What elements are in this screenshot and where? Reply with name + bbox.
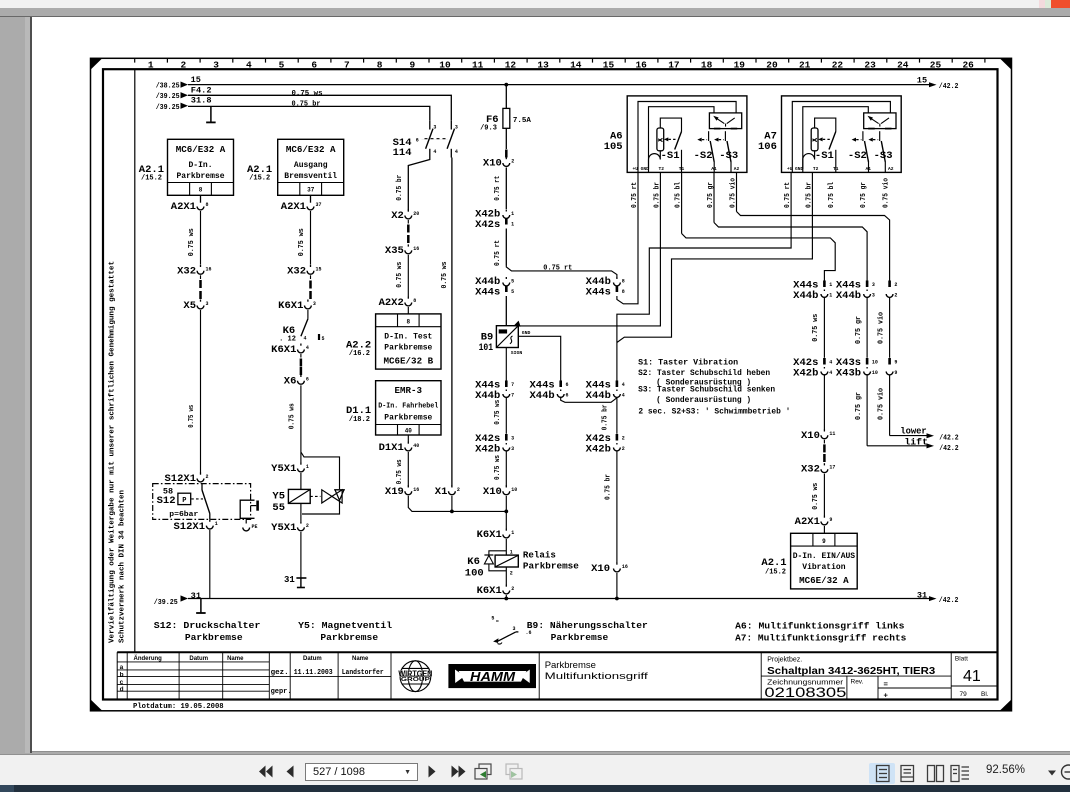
svg-text:X19: X19	[385, 486, 404, 498]
svg-text:Datum: Datum	[303, 656, 322, 662]
svg-text:17: 17	[829, 465, 835, 471]
svg-text:p=6bar: p=6bar	[169, 511, 198, 519]
svg-text:MC6/E32 A: MC6/E32 A	[176, 144, 226, 155]
svg-text:/38.25: /38.25	[156, 83, 180, 91]
svg-text:/16.2: /16.2	[349, 350, 370, 358]
svg-text:SIGN: SIGN	[511, 350, 523, 356]
svg-text:8: 8	[199, 187, 203, 194]
svg-text:A2X1: A2X1	[171, 201, 196, 213]
svg-text:9: 9	[409, 60, 415, 71]
svg-text:25: 25	[930, 60, 942, 71]
svg-text:K6X1: K6X1	[278, 300, 303, 312]
svg-text:0.75 gr: 0.75 gr	[860, 182, 868, 208]
svg-text:-S2: -S2	[694, 150, 713, 162]
svg-text:X44s: X44s	[586, 287, 611, 299]
svg-text:11: 11	[829, 431, 835, 437]
svg-text:0.75 br: 0.75 br	[605, 474, 613, 500]
svg-text:31: 31	[191, 592, 202, 601]
svg-text:X6: X6	[284, 375, 297, 387]
svg-text:0.75 ws: 0.75 ws	[188, 404, 196, 427]
svg-text:Plotdatum: 19.05.2008: Plotdatum: 19.05.2008	[133, 703, 224, 711]
svg-text:GND: GND	[522, 330, 531, 336]
svg-text:0.75 vio: 0.75 vio	[877, 388, 885, 420]
svg-text:lower: lower	[900, 427, 926, 437]
svg-text:X32: X32	[177, 265, 196, 277]
svg-text:12: 12	[505, 60, 517, 71]
svg-text:6: 6	[311, 60, 317, 71]
svg-text:X43b: X43b	[836, 368, 861, 380]
svg-text:13: 13	[537, 60, 549, 71]
svg-text:Änderung: Änderung	[134, 655, 163, 662]
svg-text:/39.25: /39.25	[156, 104, 180, 112]
svg-text:/39.25: /39.25	[154, 599, 178, 607]
svg-text:20: 20	[766, 60, 778, 71]
svg-text:1: 1	[306, 464, 309, 470]
svg-text:Y5: Y5	[272, 491, 285, 503]
svg-text:Parkbremse: Parkbremse	[384, 343, 432, 352]
svg-text:22: 22	[832, 60, 844, 71]
svg-text:Name: Name	[227, 656, 244, 662]
svg-text:/42.2: /42.2	[939, 434, 959, 442]
svg-text:9: 9	[822, 538, 826, 545]
svg-text:Schutzvermerk nach DIN 34 beac: Schutzvermerk nach DIN 34 beachten	[119, 490, 127, 643]
svg-text:-S1: -S1	[815, 150, 834, 162]
svg-text:/9.3: /9.3	[480, 124, 497, 132]
svg-text:1: 1	[829, 293, 832, 299]
svg-text:8: 8	[206, 202, 209, 208]
svg-text:02108305: 02108305	[764, 685, 846, 700]
svg-text:55: 55	[272, 502, 285, 514]
svg-text:0.75 ws: 0.75 ws	[289, 403, 297, 429]
svg-text:0.75 br: 0.75 br	[805, 182, 813, 208]
svg-text:Vervielfältigung oder Weiterga: Vervielfältigung oder Weitergabe nur mit…	[109, 261, 117, 643]
svg-text:EMR-3: EMR-3	[395, 385, 423, 396]
svg-text:2: 2	[306, 523, 309, 529]
svg-text:15: 15	[917, 76, 928, 85]
svg-text:15: 15	[603, 60, 615, 71]
svg-text:2: 2	[894, 293, 897, 299]
svg-text:=: =	[884, 680, 889, 689]
svg-text:0.75 gr: 0.75 gr	[855, 392, 863, 420]
svg-text:26: 26	[962, 60, 974, 71]
svg-text:X10: X10	[801, 430, 820, 442]
svg-text:2: 2	[622, 436, 625, 442]
svg-text:0.75 rt: 0.75 rt	[494, 176, 502, 201]
svg-text:1: 1	[511, 222, 514, 228]
svg-text:114: 114	[393, 147, 412, 159]
svg-text:40: 40	[413, 443, 419, 449]
svg-text:9: 9	[894, 360, 897, 366]
svg-text:4: 4	[829, 360, 832, 366]
svg-text:10: 10	[439, 60, 451, 71]
svg-text:37: 37	[307, 187, 315, 194]
svg-text:X44b: X44b	[586, 390, 611, 402]
svg-text:A6: Multifunktionsgriff links: A6: Multifunktionsgriff links	[735, 620, 905, 631]
svg-text:X5: X5	[183, 300, 196, 312]
svg-text:X42b: X42b	[586, 444, 611, 456]
svg-text:Vibration: Vibration	[802, 563, 845, 572]
svg-text:40: 40	[405, 427, 413, 434]
svg-text:4: 4	[455, 149, 458, 155]
svg-text:GND: GND	[641, 166, 650, 172]
svg-text:0.75 rt: 0.75 rt	[494, 240, 502, 266]
svg-text:7: 7	[511, 382, 514, 388]
svg-text:8: 8	[406, 319, 410, 326]
svg-text:20: 20	[413, 211, 419, 217]
svg-text:X44b: X44b	[836, 290, 861, 302]
svg-text:MC6E/32 A: MC6E/32 A	[799, 575, 849, 586]
svg-text:/42.2: /42.2	[939, 83, 959, 91]
svg-text:K6X1: K6X1	[477, 529, 502, 541]
svg-text:31: 31	[284, 575, 295, 585]
svg-text:( Sonderausrüstung ): ( Sonderausrüstung )	[656, 395, 751, 405]
svg-text:2: 2	[894, 282, 897, 288]
svg-text:X10: X10	[483, 158, 502, 170]
svg-text:4: 4	[306, 345, 309, 351]
svg-text:S3: Taster Schubschild senken: S3: Taster Schubschild senken	[638, 385, 775, 395]
svg-text:S12X1: S12X1	[173, 521, 205, 533]
svg-text:0.75 vio: 0.75 vio	[883, 178, 891, 208]
svg-text:Parkbremse: Parkbremse	[185, 632, 243, 643]
svg-text:K6X1: K6X1	[477, 585, 502, 597]
svg-text:MC6/E32 A: MC6/E32 A	[286, 144, 336, 155]
svg-text:X10: X10	[591, 563, 610, 575]
svg-text:7.5A: 7.5A	[513, 117, 532, 125]
svg-text:Schaltplan 3412-3625HT, TIER3: Schaltplan 3412-3625HT, TIER3	[767, 665, 935, 677]
svg-text:0.75 ws: 0.75 ws	[396, 459, 404, 484]
svg-text:A2.1: A2.1	[761, 557, 786, 569]
svg-text:0.75 ws: 0.75 ws	[292, 90, 323, 98]
svg-text:B9: Näherungsschalter: B9: Näherungsschalter	[527, 620, 648, 631]
svg-text:a: a	[120, 664, 124, 671]
svg-text:15: 15	[191, 76, 202, 85]
svg-text:A2: A2	[734, 166, 740, 172]
svg-text:0.75 ws: 0.75 ws	[812, 313, 820, 341]
svg-text:0.75 ws: 0.75 ws	[396, 261, 404, 287]
svg-text:19: 19	[734, 60, 746, 71]
svg-text:5: 5	[491, 616, 494, 622]
svg-text:4: 4	[246, 60, 252, 71]
svg-text:11: 11	[472, 60, 484, 71]
svg-text:+: +	[884, 691, 889, 700]
svg-text:b: b	[120, 671, 124, 678]
svg-text:21: 21	[799, 60, 811, 71]
svg-text:3: 3	[206, 301, 209, 307]
svg-text:Relais: Relais	[523, 549, 556, 560]
svg-text:c: c	[120, 679, 124, 686]
svg-text:T2: T2	[813, 166, 819, 172]
svg-text:2: 2	[622, 446, 625, 452]
svg-text:0.75 rt: 0.75 rt	[543, 264, 572, 272]
svg-text:4: 4	[622, 393, 625, 399]
svg-text:4: 4	[622, 382, 625, 388]
svg-text:3: 3	[872, 282, 875, 288]
svg-text:18: 18	[701, 60, 713, 71]
svg-text:0.75 ws: 0.75 ws	[494, 399, 502, 424]
svg-text:0.75 ws: 0.75 ws	[188, 228, 196, 256]
svg-text:7: 7	[511, 393, 514, 399]
svg-text:gepr.: gepr.	[271, 688, 292, 696]
svg-text:2: 2	[510, 571, 513, 577]
svg-text:5: 5	[279, 60, 285, 71]
svg-text:100: 100	[465, 568, 484, 580]
svg-text:5: 5	[511, 289, 514, 295]
svg-text:lift: lift	[904, 437, 928, 447]
svg-text:Projektbez.: Projektbez.	[767, 657, 802, 664]
svg-text:-S1: -S1	[661, 150, 680, 162]
svg-text:/42.2: /42.2	[939, 597, 959, 605]
svg-text:Bremsventil: Bremsventil	[284, 172, 337, 181]
svg-text:X32: X32	[801, 464, 820, 476]
svg-text:Multifunktionsgriff: Multifunktionsgriff	[545, 671, 648, 682]
svg-text:105: 105	[604, 141, 623, 153]
svg-text:X42s: X42s	[475, 219, 500, 231]
svg-text:GND: GND	[795, 166, 804, 172]
svg-text:d: d	[120, 686, 124, 693]
svg-text:16: 16	[206, 266, 212, 272]
svg-text:16: 16	[413, 246, 419, 252]
svg-text:24: 24	[897, 60, 909, 71]
svg-text:0.75 ws: 0.75 ws	[298, 228, 306, 256]
svg-text:S12: Druckschalter: S12: Druckschalter	[154, 620, 261, 631]
svg-text:K6X1: K6X1	[271, 344, 296, 356]
svg-text:3: 3	[511, 446, 514, 452]
svg-text:X1: X1	[435, 486, 448, 498]
svg-text:1: 1	[148, 60, 154, 71]
svg-text:/39.25: /39.25	[156, 93, 180, 101]
svg-text:1: 1	[510, 549, 513, 555]
svg-text:Datum: Datum	[189, 656, 208, 662]
svg-text:31: 31	[917, 592, 928, 601]
svg-text:7: 7	[344, 60, 350, 71]
svg-text:A2X1: A2X1	[281, 201, 306, 213]
svg-text:X42b: X42b	[793, 368, 818, 380]
svg-text:11.11.2003: 11.11.2003	[294, 669, 333, 677]
svg-text:K6: K6	[467, 556, 480, 568]
svg-text:Ausgang: Ausgang	[294, 161, 328, 170]
svg-text:X44s: X44s	[475, 287, 500, 299]
svg-text:2: 2	[511, 586, 514, 592]
svg-text:Y5X1: Y5X1	[271, 522, 296, 534]
svg-text:Y5: Magnetventil: Y5: Magnetventil	[298, 620, 392, 631]
svg-text:0.75 rt: 0.75 rt	[784, 182, 792, 208]
svg-text:79: 79	[960, 691, 968, 698]
svg-text:X10: X10	[483, 486, 502, 498]
svg-text:Parkbremse: Parkbremse	[320, 632, 378, 643]
svg-text:T2: T2	[659, 166, 665, 172]
svg-text:0.75 bl: 0.75 bl	[828, 182, 836, 208]
svg-text:/15.2: /15.2	[141, 174, 162, 182]
svg-text:Parkbremse: Parkbremse	[551, 632, 609, 643]
svg-text:0.75 gr: 0.75 gr	[855, 316, 863, 344]
svg-text:14: 14	[570, 60, 582, 71]
svg-text:/42.2: /42.2	[939, 445, 959, 453]
svg-text:106: 106	[758, 141, 777, 153]
svg-text:Rev.: Rev.	[851, 679, 864, 686]
svg-text:37: 37	[316, 202, 322, 208]
svg-text:17: 17	[668, 60, 680, 71]
svg-text:2: 2	[206, 474, 209, 480]
svg-text:4: 4	[829, 370, 832, 376]
svg-text:F4.2: F4.2	[191, 86, 212, 95]
svg-text:-S3: -S3	[719, 150, 738, 162]
svg-text:16: 16	[413, 487, 419, 493]
svg-text:23: 23	[864, 60, 876, 71]
svg-text:Parkbremse: Parkbremse	[384, 414, 432, 423]
svg-text:41: 41	[963, 668, 981, 685]
svg-text:Parkbremse: Parkbremse	[545, 660, 596, 671]
svg-text:MC6E/32 B: MC6E/32 B	[383, 355, 433, 366]
svg-text:3: 3	[313, 301, 316, 307]
svg-text:2: 2	[457, 487, 460, 493]
svg-text:3: 3	[872, 293, 875, 299]
svg-text:0.75 ws: 0.75 ws	[441, 261, 449, 288]
svg-text:A2X2: A2X2	[379, 297, 404, 309]
svg-text:A2X1: A2X1	[795, 516, 820, 528]
svg-text:4: 4	[304, 336, 307, 342]
svg-text:4: 4	[433, 149, 436, 155]
svg-text:A2: A2	[888, 166, 894, 172]
svg-text:D-In. Fahrhebel: D-In. Fahrhebel	[378, 403, 438, 411]
svg-text:.6: .6	[526, 630, 532, 636]
svg-text:3: 3	[433, 125, 436, 131]
svg-text:S12: S12	[157, 495, 176, 507]
svg-text:5: 5	[322, 336, 325, 342]
svg-text:15: 15	[316, 266, 322, 272]
svg-text:10: 10	[872, 360, 878, 366]
svg-text:8: 8	[622, 289, 625, 295]
svg-text:HAMM: HAMM	[470, 670, 516, 684]
svg-text:9: 9	[829, 517, 832, 523]
svg-text:D-In. Test: D-In. Test	[384, 332, 432, 341]
svg-text:1: 1	[829, 282, 832, 288]
svg-text:2: 2	[511, 159, 514, 165]
svg-text:0.75 br: 0.75 br	[292, 101, 321, 109]
svg-text:3: 3	[455, 125, 458, 131]
svg-text:0.75 ws: 0.75 ws	[494, 455, 502, 480]
svg-text:16: 16	[622, 564, 628, 570]
svg-text:Bl.: Bl.	[981, 691, 989, 698]
svg-text:gez.: gez.	[271, 669, 289, 677]
svg-text:PE: PE	[252, 524, 258, 530]
svg-text:0.75 vio: 0.75 vio	[877, 312, 885, 344]
svg-text:101: 101	[479, 342, 494, 354]
svg-text:Parkbremse: Parkbremse	[523, 561, 579, 572]
svg-text:Landstorfer: Landstorfer	[342, 669, 384, 677]
svg-text:/18.2: /18.2	[349, 416, 370, 424]
svg-text:X42b: X42b	[475, 444, 500, 456]
svg-text:S1: Taster Vibration: S1: Taster Vibration	[638, 358, 738, 368]
svg-text:6: 6	[566, 382, 569, 388]
svg-text:8: 8	[622, 279, 625, 285]
svg-text:D1X1: D1X1	[379, 442, 404, 454]
svg-text:. 12: . 12	[279, 336, 296, 344]
svg-text:Parkbremse: Parkbremse	[176, 172, 224, 181]
svg-text:X44b: X44b	[529, 390, 554, 402]
svg-text:0.75 br: 0.75 br	[602, 404, 610, 430]
svg-text:-S3: -S3	[874, 150, 893, 162]
svg-text:X2: X2	[391, 210, 404, 222]
svg-text:31.8: 31.8	[191, 97, 212, 106]
svg-text:2 sec. S2+S3: ' Schwimmbetrieb: 2 sec. S2+S3: ' Schwimmbetrieb '	[638, 407, 790, 417]
svg-text:P: P	[182, 497, 186, 505]
svg-text:8: 8	[413, 298, 416, 304]
svg-text:6: 6	[566, 393, 569, 399]
svg-text:/15.2: /15.2	[765, 568, 786, 576]
svg-text:Y5X1: Y5X1	[271, 463, 296, 475]
svg-text:3: 3	[511, 436, 514, 442]
svg-text:16: 16	[635, 60, 647, 71]
svg-text:Name: Name	[352, 656, 369, 662]
svg-text:X35: X35	[385, 245, 404, 257]
svg-text:0.75 rt: 0.75 rt	[631, 182, 639, 208]
svg-text:3: 3	[513, 626, 516, 632]
svg-text:0.75 br: 0.75 br	[653, 182, 661, 208]
svg-text:1: 1	[511, 211, 514, 217]
svg-text:1: 1	[511, 530, 514, 536]
svg-text:6: 6	[416, 137, 419, 143]
svg-text:6: 6	[306, 376, 309, 382]
svg-text:2: 2	[181, 60, 187, 71]
svg-text:10: 10	[872, 370, 878, 376]
svg-text:Blatt: Blatt	[955, 656, 968, 663]
svg-text:9: 9	[894, 370, 897, 376]
svg-text:D-In. EIN/AUS: D-In. EIN/AUS	[793, 552, 856, 561]
svg-text:8: 8	[377, 60, 383, 71]
svg-text:X44b: X44b	[793, 290, 818, 302]
svg-text:10: 10	[511, 487, 517, 493]
svg-text:1: 1	[215, 521, 218, 527]
svg-text:/15.2: /15.2	[249, 174, 270, 182]
svg-text:GROUP: GROUP	[401, 677, 431, 683]
svg-text:0.75 ws: 0.75 ws	[812, 482, 820, 509]
svg-text:3: 3	[213, 60, 219, 71]
svg-text:X32: X32	[287, 265, 306, 277]
svg-text:5: 5	[511, 279, 514, 285]
svg-text:D-In.: D-In.	[188, 161, 212, 170]
svg-text:-S2: -S2	[848, 150, 867, 162]
svg-text:A7: Multifunktionsgriff rechts: A7: Multifunktionsgriff rechts	[735, 633, 907, 644]
svg-text:0.75 br: 0.75 br	[396, 175, 404, 201]
